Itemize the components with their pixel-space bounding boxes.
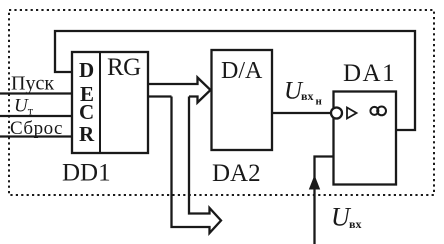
register DD1 box	[72, 52, 148, 153]
svg-text:DA1: DA1	[343, 60, 396, 87]
wire input Uвх	[315, 157, 334, 244]
comparator DA1 box	[334, 92, 397, 185]
svg-text:R: R	[79, 122, 95, 146]
svg-text:Сброс: Сброс	[10, 118, 63, 139]
svg-text:RG: RG	[107, 54, 141, 81]
register DD1 pin column divider	[99, 52, 101, 153]
svg-text:D/A: D/A	[221, 58, 263, 84]
svg-text:вх: вх	[301, 89, 313, 103]
comparator DA1 triangle symbol	[347, 108, 357, 119]
DAC DA2 box	[212, 50, 273, 150]
wire DA2 to DA1	[272, 112, 332, 114]
svg-text:C: C	[79, 100, 94, 124]
svg-text:D: D	[79, 58, 94, 82]
svg-text:вх: вх	[349, 217, 361, 231]
comparator DA1 infinity symbol	[370, 107, 386, 116]
feedback wire DA1 output to DD1 D input	[55, 31, 415, 130]
wire input Пуск	[0, 92, 72, 94]
arrowhead Uвх	[309, 175, 320, 190]
svg-text:DD1: DD1	[62, 160, 111, 187]
comparator DA1 inversion circle	[331, 108, 342, 119]
bus arrow DD1 to DA2	[148, 78, 211, 103]
svg-text:Uт: Uт	[14, 96, 34, 118]
svg-text:н: н	[316, 96, 323, 108]
svg-text:DA2: DA2	[212, 160, 261, 187]
svg-text:Пуск: Пуск	[11, 73, 54, 95]
bus branch to output arrow	[172, 97, 222, 234]
wire input Uт	[0, 115, 72, 117]
dashed boundary box	[9, 10, 434, 195]
wire input Сброс	[0, 135, 72, 137]
